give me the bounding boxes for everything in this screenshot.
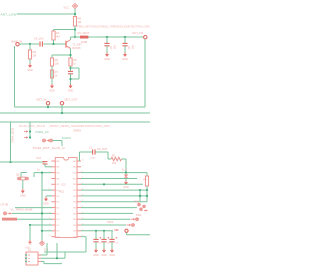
ground C9 bbox=[109, 249, 115, 258]
oscillator Q1 body bbox=[26, 252, 38, 265]
svg-text:PGM_DST_SCLS: PGM_DST_SCLS bbox=[19, 125, 45, 128]
capacitor C6 bbox=[122, 43, 134, 49]
resistor R7 bbox=[50, 70, 58, 78]
wire R5 to node C bbox=[74, 26, 76, 37]
svg-text:C9: C9 bbox=[115, 242, 119, 244]
wire C9 top stub bbox=[111, 231, 113, 239]
ground C5 bbox=[104, 53, 110, 62]
node x147 mid bbox=[146, 195, 148, 197]
svg-text:R7: R7 bbox=[55, 70, 59, 74]
pin SV1 pin1 bbox=[24, 130, 28, 132]
svg-text:RC5: RC5 bbox=[56, 231, 59, 233]
diode D1 bbox=[124, 174, 128, 178]
wire X5 drop bbox=[126, 232, 128, 234]
svg-text:OUT_D4: OUT_D4 bbox=[132, 31, 143, 35]
wire C7 top stub bbox=[95, 231, 97, 239]
svg-text:TOM_SEN: TOM_SEN bbox=[12, 128, 15, 143]
oscillator right pins bbox=[38, 255, 41, 261]
wire C1 drop bbox=[107, 152, 109, 159]
svg-text:CP-3B: CP-3B bbox=[1, 203, 9, 207]
connector X1 BWF_IN bbox=[16, 43, 19, 46]
svg-text:PGM_Int: PGM_Int bbox=[36, 130, 49, 134]
wire C9 bottom stub bbox=[111, 242, 113, 249]
svg-text:DET_IN: DET_IN bbox=[37, 98, 47, 102]
wire D1 bottom stub bbox=[125, 178, 127, 180]
wire X5 run bbox=[127, 234, 151, 236]
svg-text:GND: GND bbox=[68, 90, 74, 93]
pin SV1 pin2 bbox=[24, 136, 28, 138]
wire C13 pin run bbox=[45, 166, 52, 168]
node collector bbox=[74, 36, 76, 38]
wire left drop bbox=[10, 122, 12, 162]
svg-text:10k: 10k bbox=[55, 62, 60, 66]
wire pin6r bbox=[81, 189, 147, 191]
svg-text:RB2: RB2 bbox=[73, 213, 76, 215]
wire C1 run bbox=[96, 151, 109, 153]
svg-text:VCC: VCC bbox=[64, 5, 70, 9]
wire R3 top stub bbox=[29, 44, 31, 50]
wire rail x42 bbox=[41, 173, 43, 241]
svg-text:10u: 10u bbox=[113, 45, 117, 50]
svg-text:C13: C13 bbox=[36, 156, 41, 160]
wire collector rail bbox=[71, 36, 81, 38]
wire C9 bottom stub bbox=[70, 74, 72, 84]
switch S1 pin b bbox=[143, 205, 146, 208]
ground C7 bbox=[93, 249, 99, 258]
wire pin8r bbox=[81, 201, 147, 203]
wire pin1 riser bbox=[79, 152, 81, 161]
svg-text:D#/DN: D#/DN bbox=[74, 130, 82, 133]
resistor R6 bbox=[50, 58, 59, 66]
wire x140 drop bbox=[139, 190, 141, 202]
capacitor C7 bbox=[93, 237, 101, 242]
wire osc p1 riser bbox=[46, 243, 48, 255]
wire crystal elbow h bbox=[21, 172, 27, 174]
node rail42 pin10 bbox=[41, 212, 43, 214]
svg-text:RC1: RC1 bbox=[56, 207, 59, 209]
svg-text:1M: 1M bbox=[33, 54, 37, 58]
switch S3 pin bbox=[136, 218, 139, 221]
connector bar J2 bbox=[2, 218, 17, 221]
svg-text:OS1: OS1 bbox=[56, 190, 59, 192]
svg-text:C8: C8 bbox=[107, 242, 111, 244]
crystal Q2 bbox=[18, 177, 29, 180]
wire pin11r bbox=[81, 218, 130, 220]
resistor R1 bbox=[111, 157, 121, 161]
svg-text:10u: 10u bbox=[131, 45, 135, 50]
wire C13 to pin bbox=[44, 164, 46, 167]
svg-text:3: 3 bbox=[49, 171, 50, 173]
connector arrow out bbox=[114, 229, 119, 231]
svg-text:R4: R4 bbox=[56, 31, 60, 35]
wire C6 bottom stub bbox=[124, 46, 126, 53]
svg-text:R6: R6 bbox=[55, 58, 59, 62]
ground input bbox=[27, 64, 33, 73]
connector X5 bbox=[125, 229, 128, 232]
capacitor C13 bbox=[43, 162, 48, 164]
node header pin1 bbox=[29, 130, 31, 132]
wire x147 drop bbox=[146, 190, 148, 202]
svg-text:GND: GND bbox=[27, 69, 33, 72]
wire pin7r bbox=[81, 195, 147, 197]
node osc p2 junction bbox=[56, 257, 58, 259]
svg-text:NAP2: NAP2 bbox=[107, 221, 114, 224]
wire pin1 run bbox=[80, 151, 93, 153]
svg-text:GND: GND bbox=[20, 195, 26, 198]
resistor R4 bbox=[52, 31, 61, 40]
wire rail detin bbox=[15, 106, 146, 108]
wire input to C4 bbox=[19, 43, 39, 45]
node bias bbox=[74, 28, 76, 30]
svg-text:PIC1: PIC1 bbox=[59, 191, 65, 194]
svg-text:4k7: 4k7 bbox=[56, 35, 61, 39]
wire pin13 left bbox=[42, 230, 52, 232]
wire net ANT_LOW to VCC node bbox=[17, 13, 75, 15]
wire osc p2 bbox=[41, 257, 65, 259]
node R8 C9 junction bbox=[69, 67, 71, 69]
node VCC junction bbox=[74, 13, 76, 15]
svg-text:1: 1 bbox=[49, 160, 50, 162]
wire crystal elbow v bbox=[20, 173, 22, 178]
wire osc p2 riser bbox=[56, 243, 58, 258]
wire osc p3 run bbox=[44, 263, 62, 265]
wire C8 top stub bbox=[103, 231, 105, 239]
wire crystal to pin v bbox=[33, 173, 35, 177]
ground crystal bbox=[20, 189, 26, 198]
capacitor C8 bbox=[101, 237, 109, 242]
svg-text:R3: R3 bbox=[33, 50, 37, 54]
svg-text:PWM_DET/ADJUSTABLE_THRESHOLD/D: PWM_DET/ADJUSTABLE_THRESHOLD/DETECTION_C… bbox=[77, 26, 150, 29]
wire crystal gnd drop bbox=[22, 180, 24, 189]
node osc pin1 bbox=[25, 254, 27, 256]
svg-text:GND: GND bbox=[123, 186, 129, 189]
wire pin10 wire bbox=[12, 212, 52, 214]
svg-text:BC546: BC546 bbox=[73, 46, 81, 50]
node cap rail b bbox=[103, 230, 105, 232]
resistor R9 bbox=[145, 176, 148, 186]
power symbol +5V bbox=[25, 240, 32, 250]
switch S1 pin a bbox=[138, 203, 141, 206]
svg-text:DRST_SENS_SAD/RETURN/TUPM_DST: DRST_SENS_SAD/RETURN/TUPM_DST bbox=[50, 125, 111, 128]
ground emitter bbox=[68, 84, 74, 93]
pin header X3 arrow bbox=[47, 139, 51, 141]
svg-text:27: 27 bbox=[82, 165, 84, 167]
svg-text:5V0: 5V0 bbox=[44, 248, 49, 251]
switch S4 pin bbox=[132, 224, 135, 227]
wire C6 top stub bbox=[124, 37, 126, 43]
svg-text:C5: C5 bbox=[109, 46, 113, 50]
svg-text:RB0: RB0 bbox=[73, 225, 76, 227]
svg-text:ANT_LOW: ANT_LOW bbox=[1, 13, 17, 17]
svg-text:RB3: RB3 bbox=[73, 207, 76, 209]
IC left pins bbox=[49, 160, 61, 239]
wire C8 bottom stub bbox=[103, 242, 105, 249]
svg-text:RB1: RB1 bbox=[73, 219, 76, 221]
pin X4 a bbox=[4, 212, 7, 215]
node C6 junction bbox=[124, 36, 126, 38]
wire bypass top bbox=[71, 67, 80, 69]
resistor R5 bbox=[73, 17, 81, 27]
svg-text:1M: 1M bbox=[78, 20, 82, 24]
wire R1 right stub bbox=[122, 158, 127, 160]
node rail42 pin13 bbox=[41, 230, 43, 232]
wire pin6 to rail42 bbox=[42, 189, 52, 191]
svg-text:RB4: RB4 bbox=[73, 202, 76, 204]
svg-text:100n: 100n bbox=[91, 158, 97, 160]
svg-text:VSS: VSS bbox=[56, 184, 59, 186]
svg-text:GND: GND bbox=[122, 58, 128, 61]
wire rail mid bbox=[0, 112, 150, 114]
ground C8 bbox=[101, 249, 107, 258]
wire pin14 drop bbox=[85, 237, 87, 252]
svg-text:OS2: OS2 bbox=[56, 196, 59, 198]
capacitor C1 bbox=[89, 146, 96, 159]
svg-text:4: 4 bbox=[49, 177, 50, 179]
node osc pin3 bbox=[25, 261, 27, 263]
wire input drop bbox=[14, 46, 16, 107]
ground R7 bbox=[49, 84, 55, 93]
node R9 bottom bbox=[146, 189, 148, 191]
capacitor C5 bbox=[104, 43, 116, 49]
svg-text:GND: GND bbox=[104, 58, 110, 61]
svg-text:RC4: RC4 bbox=[56, 225, 59, 227]
wire C5 bottom stub bbox=[106, 46, 108, 53]
wire R9 top stub bbox=[146, 173, 148, 176]
pin X4 arrow bbox=[8, 212, 12, 214]
svg-text:Q1: Q1 bbox=[28, 248, 32, 251]
pin header X3 b bbox=[50, 139, 53, 142]
wire pin4r bbox=[81, 178, 137, 180]
svg-text:DATA: DATA bbox=[62, 136, 71, 140]
wire pin9 to connector bbox=[15, 207, 52, 209]
svg-text:RB5: RB5 bbox=[73, 196, 76, 198]
wire pin11 long bbox=[17, 218, 52, 220]
switch S4 arrow bbox=[127, 224, 132, 226]
wire R8 bottom stub bbox=[70, 66, 72, 71]
node emitter bbox=[69, 54, 71, 56]
svg-text:RC3: RC3 bbox=[56, 219, 59, 221]
wire DATA drop bbox=[61, 141, 63, 147]
wire pin5r bbox=[81, 183, 143, 185]
wire pin10r bbox=[81, 212, 133, 214]
wire C4 to base bbox=[44, 43, 67, 45]
wire output rail bbox=[88, 36, 143, 38]
svg-text:GND: GND bbox=[93, 254, 99, 257]
wire collector stub bbox=[70, 37, 72, 40]
svg-text:28: 28 bbox=[82, 160, 84, 162]
wire pin7 gnd stub bbox=[45, 196, 47, 197]
svg-text:GND: GND bbox=[101, 254, 107, 257]
wire bypass bottom bbox=[71, 78, 80, 80]
switch S3 arrow bbox=[131, 218, 136, 220]
svg-text:RB6: RB6 bbox=[73, 190, 76, 192]
wire R6 bottom bbox=[51, 66, 53, 84]
node rail42 top bbox=[41, 172, 43, 174]
wire R9 bottom stub bbox=[146, 186, 148, 190]
svg-text:C1: C1 bbox=[89, 146, 93, 149]
svg-text:R5: R5 bbox=[78, 17, 82, 21]
wire R4 top stub bbox=[53, 30, 55, 32]
svg-text:SO_DAT: SO_DAT bbox=[97, 147, 108, 151]
wire pin12 bbox=[30, 224, 52, 226]
node DET_IN junction bbox=[47, 106, 49, 108]
wire DET_IN stub bbox=[47, 105, 49, 107]
svg-text:PGM_DST_SenS_In: PGM_DST_SenS_In bbox=[33, 147, 66, 150]
wire VCC stub bbox=[74, 9, 76, 17]
node rail30 top bbox=[29, 224, 31, 226]
wire header drop bbox=[29, 122, 31, 138]
transistor T1 bbox=[66, 40, 82, 50]
node pin5r mid bbox=[103, 183, 105, 185]
node x140 top bbox=[139, 189, 141, 191]
switch S1 arrow bbox=[144, 209, 148, 211]
wire bias rail bbox=[54, 29, 76, 31]
wire osc p3 drop bbox=[43, 261, 45, 263]
op-amp U1 IC body bbox=[55, 158, 77, 238]
svg-text:RV_NEXT: RV_NEXT bbox=[78, 31, 90, 35]
connector DET_IN bbox=[46, 102, 49, 105]
ground C6 bbox=[122, 53, 128, 62]
svg-text:D_A: D_A bbox=[122, 169, 127, 172]
svg-text:VSS: VSS bbox=[73, 237, 76, 239]
wire pin7 gnd bbox=[46, 195, 52, 197]
svg-text:DET_OUT: DET_OUT bbox=[65, 98, 78, 102]
capacitor C9 bbox=[109, 237, 117, 242]
wire C5 top stub bbox=[106, 37, 108, 43]
node bypass bottom bbox=[69, 78, 71, 80]
svg-text:1k: 1k bbox=[73, 62, 76, 66]
node x140 mid bbox=[139, 195, 141, 197]
wire pin14 run bbox=[44, 251, 86, 253]
ground pin7 bbox=[43, 197, 49, 206]
svg-text:1n: 1n bbox=[37, 168, 40, 172]
power symbol VCC bbox=[72, 3, 77, 8]
wire osc p3 stub bbox=[41, 260, 44, 262]
svg-text:GND: GND bbox=[109, 254, 115, 257]
svg-text:C4_1N2: C4_1N2 bbox=[34, 37, 44, 41]
wire DET_OUT stub bbox=[61, 105, 63, 113]
svg-text:R8: R8 bbox=[73, 58, 77, 62]
node base junction bbox=[52, 43, 54, 45]
svg-text:10k: 10k bbox=[112, 161, 117, 165]
connector DET_OUT bbox=[60, 102, 63, 105]
node osc pin2 bbox=[25, 257, 27, 259]
svg-text:RC0: RC0 bbox=[56, 202, 59, 204]
node header pin2 bbox=[29, 136, 31, 138]
svg-text:2: 2 bbox=[49, 165, 50, 167]
svg-text:14: 14 bbox=[49, 235, 51, 237]
svg-text:Q2: Q2 bbox=[16, 172, 20, 176]
wire emitter rail bbox=[52, 54, 71, 56]
wire R3 bottom stub bbox=[29, 59, 31, 64]
svg-text:VL_T#S00_NANE: VL_T#S00_NANE bbox=[11, 207, 33, 211]
wire header X3 bbox=[53, 140, 63, 142]
wire RA top stub bbox=[51, 55, 53, 58]
wire C7 bottom stub bbox=[95, 242, 97, 249]
wire rail low bbox=[0, 121, 150, 123]
wire out drop bbox=[144, 39, 146, 107]
wire R1 left stub bbox=[108, 158, 111, 160]
svg-text:C6: C6 bbox=[127, 46, 131, 50]
capacitor C9 bbox=[68, 71, 73, 73]
resistor R3 bbox=[28, 50, 36, 59]
svg-text:RC2: RC2 bbox=[56, 213, 59, 215]
wire pin12r bbox=[81, 224, 126, 226]
wire crystal to pin h bbox=[34, 172, 52, 174]
wire osc p2 elbow bbox=[64, 252, 66, 258]
ground D1 bbox=[123, 181, 129, 190]
wire bypass right bbox=[78, 68, 80, 79]
resistor RV horizontal bbox=[80, 36, 88, 44]
IC right pins bbox=[73, 160, 84, 239]
svg-text:GND: GND bbox=[49, 90, 55, 93]
node DET_OUT junction bbox=[61, 112, 63, 114]
svg-text:RB7: RB7 bbox=[73, 184, 76, 186]
svg-text:100R: 100R bbox=[81, 40, 87, 44]
power symbol VCC2 bbox=[40, 241, 45, 246]
wire osc p1 bbox=[41, 254, 47, 256]
resistor R8 bbox=[69, 58, 77, 66]
node cap rail a bbox=[95, 230, 97, 232]
wire pin3 long bbox=[81, 172, 147, 174]
svg-text:1k: 1k bbox=[55, 74, 58, 78]
wire R4 to base bbox=[53, 40, 55, 44]
node rail C13 left bbox=[9, 161, 11, 163]
switch S1 pin c bbox=[140, 208, 143, 211]
wire rail x30 bbox=[29, 225, 31, 240]
svg-text:GND: GND bbox=[43, 203, 49, 206]
svg-text:R9: R9 bbox=[143, 178, 147, 181]
capacitor C4 bbox=[40, 41, 42, 46]
node D1 junction bbox=[125, 172, 127, 174]
svg-text:DW2: DW2 bbox=[136, 214, 142, 217]
wire pin14r bbox=[81, 236, 86, 238]
wire R1 drop bbox=[125, 159, 127, 173]
wire emitter stub bbox=[70, 49, 72, 58]
wire rail C13 bbox=[0, 161, 45, 163]
svg-text:C7: C7 bbox=[99, 242, 103, 244]
wire pin9r bbox=[81, 207, 137, 209]
node C5 junction bbox=[106, 36, 108, 38]
svg-text:IC2: IC2 bbox=[62, 183, 67, 187]
svg-text:MCL: MCL bbox=[73, 178, 76, 180]
node input junction bbox=[29, 43, 31, 45]
connector OUT_D4 bbox=[144, 36, 147, 39]
pin header X3 a bbox=[43, 139, 46, 142]
wire pin13r bbox=[81, 230, 113, 232]
svg-text:5: 5 bbox=[49, 183, 50, 185]
